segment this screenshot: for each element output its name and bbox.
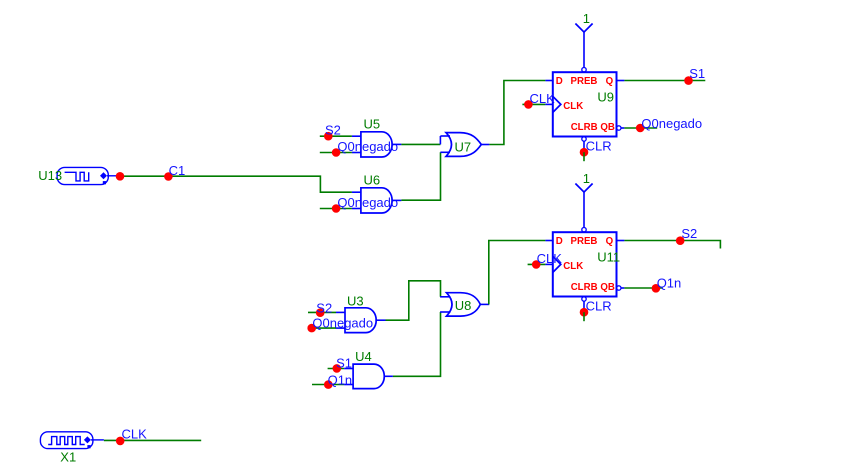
svg-text:U5: U5	[364, 117, 381, 132]
svg-text:Q0negado: Q0negado	[312, 316, 373, 331]
U4 input2 pin stub	[344, 384, 353, 386]
wire S2 from U11 Q	[624, 241, 720, 249]
svg-text:D: D	[556, 76, 563, 87]
svg-text:CLRB: CLRB	[571, 282, 598, 293]
OR gate U7	[446, 133, 481, 157]
junction Q1n at U4	[324, 380, 333, 389]
svg-text:U9: U9	[597, 90, 614, 105]
junction CLK at X1	[116, 437, 125, 446]
junction Q0negado at U5	[332, 148, 341, 157]
U7 input2 pin stub	[440, 151, 450, 153]
junction CLR at U9	[580, 148, 589, 157]
svg-text:1: 1	[583, 11, 590, 26]
junction S1 at U4	[333, 364, 342, 373]
junction S1	[684, 76, 693, 85]
svg-text:Q0negado: Q0negado	[337, 195, 398, 210]
U3 output pin stub	[375, 319, 385, 321]
U5 output pin stub	[392, 143, 401, 145]
svg-text:Q1n: Q1n	[328, 373, 353, 388]
wire Q0negado stub to U5	[320, 152, 352, 154]
wire Q0negado stub to U6	[320, 208, 352, 210]
U5 input1 pin stub	[352, 135, 361, 137]
svg-text:S2: S2	[325, 123, 341, 138]
U3 input2 pin stub	[336, 327, 345, 329]
svg-text:CLR: CLR	[586, 139, 612, 154]
junction Q0negado at U9	[636, 124, 645, 133]
AND gate U5	[361, 132, 392, 157]
svg-text:U6: U6	[364, 173, 381, 188]
junction C1	[164, 172, 173, 181]
svg-text:C1: C1	[169, 163, 186, 178]
svg-text:Q0negado: Q0negado	[641, 116, 702, 131]
U11 pin D lead	[545, 240, 552, 242]
U11 pin Q lead	[617, 240, 625, 242]
U7 output pin stub	[481, 144, 489, 146]
U9 pin QB lead	[621, 127, 624, 129]
U9 CLK edge wedge	[553, 96, 561, 112]
junction CLK at U11	[532, 260, 541, 269]
svg-text:U7: U7	[455, 139, 472, 154]
svg-text:U8: U8	[455, 298, 472, 313]
wire S2 stub to U5	[320, 135, 352, 137]
wire Q1n stub to U4	[312, 384, 344, 386]
power 1 arrow U9	[575, 24, 592, 33]
U11 CLRB lead	[583, 301, 585, 310]
wire U3 output to U8	[386, 281, 441, 320]
junction Q0negado at U3	[307, 324, 316, 333]
U8 input2 pin stub	[440, 311, 450, 313]
power 1 arrow U11	[575, 184, 592, 193]
svg-text:U3: U3	[347, 294, 364, 309]
svg-text:Q0negado: Q0negado	[337, 139, 398, 154]
junction S2 at U5	[324, 132, 333, 141]
U11 PREB power wire	[583, 192, 585, 227]
svg-text:CLK: CLK	[122, 427, 148, 442]
U11 pin QB lead	[621, 287, 624, 289]
junction S2 at U3	[316, 308, 325, 317]
wire Q0negado from U9 QB	[624, 127, 657, 129]
AND gate U4	[353, 364, 384, 389]
OR gate U8	[447, 293, 481, 316]
wire Q1n from U11 QB	[624, 287, 662, 289]
svg-text:U13: U13	[38, 168, 62, 183]
svg-text:Q1n: Q1n	[657, 276, 682, 291]
U11 CLK edge wedge	[553, 256, 561, 272]
wire U5 output to U7	[401, 143, 440, 145]
U7 input1 jog	[439, 136, 441, 144]
junction CLK at U9	[524, 100, 533, 109]
wire Q0negado stub to U3	[308, 327, 336, 329]
wire S1 from U9 Q	[624, 80, 705, 82]
U9 pin D lead	[545, 80, 552, 82]
U8 output pin stub	[480, 303, 489, 305]
svg-text:CLK: CLK	[530, 91, 556, 106]
U9 QB bubble	[617, 126, 621, 130]
junction on C1 net	[116, 172, 125, 181]
svg-text:CLK: CLK	[563, 101, 583, 112]
U4 input1 pin stub	[344, 368, 353, 370]
svg-text:U11: U11	[597, 250, 620, 265]
svg-text:PREB: PREB	[571, 76, 598, 87]
clock source U13	[57, 167, 116, 184]
junction S2 at U11	[676, 236, 685, 245]
svg-text:S2: S2	[316, 300, 332, 315]
U6 output pin stub	[392, 199, 401, 201]
svg-text:Q: Q	[606, 236, 614, 247]
wire C1 net	[116, 176, 352, 192]
clock source X1	[40, 432, 104, 449]
junction Q0negado at U6	[332, 204, 341, 213]
wire CLR stub at U9	[583, 152, 585, 161]
U5 input2 pin stub	[352, 152, 361, 154]
AND gate U6	[361, 188, 392, 213]
wire S1 stub to U4	[328, 368, 345, 370]
D flip-flop U9 box	[553, 72, 617, 136]
svg-text:1: 1	[583, 171, 590, 186]
U8 input1 pin stub	[440, 296, 450, 298]
U11 pin CLK lead	[545, 263, 552, 265]
U9 CLRB bubble	[582, 137, 586, 141]
svg-text:S1: S1	[336, 356, 352, 371]
U11 QB bubble	[617, 286, 621, 290]
wire U6 output to U7	[401, 152, 440, 200]
U3 input1 pin stub	[336, 311, 345, 313]
svg-text:QB: QB	[600, 122, 615, 133]
U11 CLRB bubble	[582, 297, 586, 301]
svg-text:QB: QB	[600, 282, 615, 293]
wire CLK from X1	[104, 439, 201, 441]
U9 pin CLK lead	[545, 103, 552, 105]
wire CLK stub at U11	[528, 263, 546, 265]
svg-text:Q: Q	[606, 76, 614, 87]
U9 CLRB lead	[583, 141, 585, 150]
wire S2 stub to U3	[308, 311, 336, 313]
svg-text:CLRB: CLRB	[571, 122, 598, 133]
svg-text:S1: S1	[689, 66, 705, 81]
wire U8 output to U11 D	[489, 241, 546, 305]
svg-text:PREB: PREB	[571, 236, 598, 247]
svg-text:U4: U4	[355, 349, 372, 364]
wire CLK stub at U9	[522, 103, 545, 105]
junction Q1n at U11	[652, 284, 661, 293]
svg-text:D: D	[556, 236, 563, 247]
svg-text:CLK: CLK	[537, 251, 563, 266]
wire CLR stub at U11	[583, 312, 585, 321]
svg-text:S2: S2	[681, 226, 697, 241]
U11 PREB bubble	[582, 228, 586, 232]
svg-text:CLR: CLR	[586, 299, 612, 314]
U9 PREB power wire	[583, 32, 585, 67]
U6 input2 pin stub	[352, 208, 361, 210]
svg-text:CLK: CLK	[563, 261, 583, 272]
wire U4 output to U8	[393, 312, 441, 376]
U4 output pin stub	[384, 375, 393, 377]
U7 input1 pin stub	[440, 135, 450, 137]
U6 input1 pin stub	[352, 191, 361, 193]
U9 PREB bubble	[582, 68, 586, 72]
svg-text:X1: X1	[60, 450, 76, 465]
AND gate U3	[345, 308, 376, 333]
D flip-flop U11 box	[553, 232, 617, 296]
wire U7 output to U9 D	[489, 81, 545, 145]
junction CLR at U11	[580, 308, 589, 317]
U9 pin Q lead	[617, 80, 625, 82]
